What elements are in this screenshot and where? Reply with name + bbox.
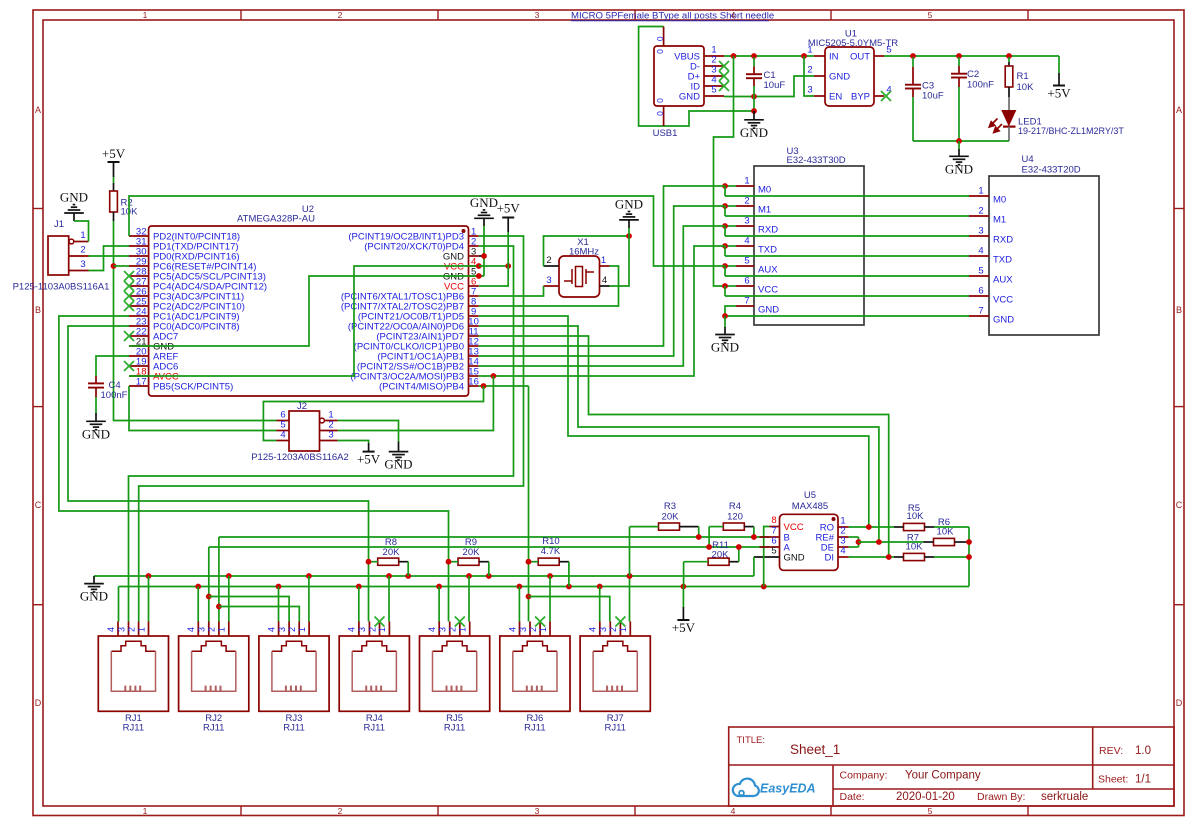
junction X1 GND bbox=[626, 233, 632, 239]
svg-text:4: 4 bbox=[266, 627, 276, 632]
svg-text:GND: GND bbox=[784, 553, 805, 564]
wire RJ2 pin3 column bbox=[208, 547, 210, 622]
wire RJ7 pin3 link bbox=[529, 597, 610, 622]
svg-text:4: 4 bbox=[106, 627, 116, 632]
EasyEDA logo bbox=[733, 779, 816, 796]
stub B line to U5 bbox=[760, 536, 770, 538]
svg-text:16MHz: 16MHz bbox=[569, 247, 599, 258]
svg-text:1: 1 bbox=[297, 627, 307, 632]
junction R9 left bbox=[446, 559, 452, 565]
connector RJ4 body bbox=[339, 636, 409, 711]
svg-text:5: 5 bbox=[978, 266, 983, 277]
wire PC0 to R8 column bbox=[68, 326, 369, 622]
svg-text:GND: GND bbox=[470, 195, 498, 210]
svg-text:7: 7 bbox=[978, 306, 983, 317]
ground GND flag above X1 bbox=[615, 196, 643, 236]
connector RJ1 body bbox=[98, 636, 168, 711]
wire AREF to C4 bbox=[96, 356, 129, 376]
wire PB3 to U3 TXD bbox=[479, 246, 725, 376]
svg-text:3: 3 bbox=[546, 275, 551, 286]
wire J1 pin3 to U2 PD1 bbox=[89, 246, 130, 271]
wire PD5 to U5 RO bbox=[479, 316, 869, 527]
junction RJ2 pin3 bus bbox=[206, 594, 212, 600]
X1 pin stubs bbox=[544, 266, 610, 286]
svg-text:3: 3 bbox=[978, 226, 983, 237]
svg-text:5: 5 bbox=[886, 45, 891, 56]
svg-text:GND: GND bbox=[80, 589, 108, 604]
svg-text:E32-433T30D: E32-433T30D bbox=[787, 155, 846, 166]
resistor R7 bbox=[894, 553, 969, 560]
svg-text:4: 4 bbox=[186, 627, 196, 632]
svg-text:1: 1 bbox=[744, 176, 749, 187]
U3 pin names bbox=[758, 185, 779, 316]
svg-text:GND: GND bbox=[384, 457, 412, 472]
wire R2 to RESET and J2 bbox=[114, 221, 277, 421]
junction ground rail bbox=[956, 138, 962, 144]
svg-text:R3: R3 bbox=[664, 501, 676, 512]
J2 right pin numbers bbox=[328, 410, 333, 441]
svg-text:GND: GND bbox=[758, 305, 779, 316]
resistor R2 bbox=[110, 183, 118, 221]
junction C1 bottom bbox=[751, 94, 757, 100]
svg-text:2: 2 bbox=[287, 627, 297, 632]
svg-text:U4: U4 bbox=[1022, 154, 1034, 165]
junction RJ2 pin2 bus bbox=[216, 604, 222, 610]
RJ6 pin stubs bbox=[520, 622, 551, 637]
svg-text:OUT: OUT bbox=[850, 52, 870, 63]
junction +5V column bbox=[505, 263, 511, 269]
wire U5 VCC to +5V rail bbox=[764, 527, 770, 587]
svg-text:REV:: REV: bbox=[1099, 745, 1123, 757]
svg-text:1/1: 1/1 bbox=[1135, 774, 1151, 786]
svg-text:GND: GND bbox=[993, 315, 1014, 326]
capacitor C3 bbox=[905, 57, 921, 141]
U2 left pin names bbox=[153, 232, 267, 393]
svg-text:4: 4 bbox=[347, 627, 357, 632]
junction U2 pin5 GND bbox=[476, 273, 482, 279]
svg-text:C2: C2 bbox=[967, 69, 979, 80]
svg-text:3: 3 bbox=[197, 627, 207, 632]
U2 pin1 marker bbox=[462, 229, 466, 233]
junction VBUS branch bbox=[731, 53, 737, 59]
ground GND below U3 bbox=[711, 316, 739, 355]
connector USB1 body bbox=[654, 46, 704, 106]
U5 left pin names bbox=[784, 522, 805, 564]
ground GND left of rail bbox=[80, 576, 108, 604]
RJ5 pin stubs bbox=[439, 622, 470, 637]
svg-text:3: 3 bbox=[518, 627, 528, 632]
junction U3 GND bbox=[722, 313, 728, 319]
wire PD2 to U3 AUX bbox=[129, 196, 725, 266]
svg-text:+5V: +5V bbox=[102, 146, 126, 161]
svg-text:E32-433T20D: E32-433T20D bbox=[1022, 165, 1081, 176]
svg-text:RJ11: RJ11 bbox=[123, 723, 144, 734]
svg-text:RJ11: RJ11 bbox=[524, 723, 545, 734]
svg-text:TITLE:: TITLE: bbox=[737, 735, 766, 746]
resistor R10 bbox=[529, 558, 569, 586]
frame column ticks bottom bbox=[241, 806, 1028, 816]
svg-text:3: 3 bbox=[438, 627, 448, 632]
svg-text:5: 5 bbox=[711, 85, 716, 96]
X1 pin numbers bbox=[546, 255, 607, 286]
svg-text:A: A bbox=[1176, 105, 1182, 115]
U5 left pin numbers bbox=[771, 515, 776, 557]
RJ4 pin numbers bbox=[347, 627, 388, 632]
no-connect X on RJ6 pin2 bbox=[535, 617, 545, 627]
RJ1 jack glyph bbox=[111, 641, 155, 651]
svg-text:4: 4 bbox=[978, 246, 983, 257]
junctions U3 pins bbox=[722, 183, 736, 289]
svg-text:3: 3 bbox=[535, 10, 540, 20]
svg-text:4: 4 bbox=[588, 627, 598, 632]
resistor R5 bbox=[894, 523, 969, 586]
svg-text:GND: GND bbox=[60, 190, 88, 205]
junction R11 to A line bbox=[736, 544, 742, 550]
svg-text:EasyEDA: EasyEDA bbox=[760, 782, 816, 796]
svg-text:M1: M1 bbox=[993, 215, 1006, 226]
U5 right pin names bbox=[816, 523, 835, 564]
power +5V flag above R2 bbox=[102, 146, 126, 183]
svg-text:4: 4 bbox=[744, 236, 749, 247]
wire J2 pin3 to +5V bbox=[338, 441, 369, 444]
J1 pin1 bubble bbox=[69, 239, 74, 244]
svg-text:3: 3 bbox=[116, 627, 126, 632]
svg-text:1.0: 1.0 bbox=[1135, 745, 1151, 757]
frame row ticks right bbox=[1174, 209, 1184, 605]
junction C2 top bbox=[956, 53, 962, 59]
wire MOSI to J2 pin2 bbox=[338, 376, 494, 431]
J2 right pin stubs bbox=[320, 421, 338, 441]
module U4 body bbox=[989, 176, 1099, 335]
svg-text:+5V: +5V bbox=[1047, 86, 1071, 101]
svg-text:1: 1 bbox=[807, 45, 812, 56]
U2 left pin stubs bbox=[129, 236, 149, 386]
RJ7 jack glyph bbox=[593, 641, 637, 651]
power +5V flag top right bbox=[1047, 56, 1071, 101]
U4 pin stubs bbox=[969, 196, 989, 316]
RJ2 jack glyph bbox=[192, 641, 236, 651]
svg-text:2: 2 bbox=[448, 627, 458, 632]
capacitor C2 bbox=[951, 57, 967, 141]
connector RJ5 body bbox=[420, 636, 490, 711]
svg-text:1: 1 bbox=[978, 186, 983, 197]
wire U3 GND elbow bbox=[725, 306, 736, 316]
junction RE DE mid bbox=[856, 539, 862, 545]
RJ2 pin numbers bbox=[186, 627, 227, 632]
ground GND below C2 bbox=[945, 141, 973, 176]
svg-text:2020-01-20: 2020-01-20 bbox=[896, 791, 955, 803]
svg-text:2: 2 bbox=[608, 627, 618, 632]
svg-text:2: 2 bbox=[546, 255, 551, 266]
junction +5V flag column bbox=[681, 584, 687, 590]
svg-text:M1: M1 bbox=[758, 205, 771, 216]
svg-text:1: 1 bbox=[601, 255, 606, 266]
svg-text:2: 2 bbox=[807, 65, 812, 76]
svg-text:(PCINT4/MISO)PB4: (PCINT4/MISO)PB4 bbox=[379, 382, 464, 393]
svg-text:3: 3 bbox=[328, 430, 333, 441]
svg-text:20K: 20K bbox=[383, 547, 401, 558]
frame column numbers bottom bbox=[143, 806, 933, 816]
U2 right pin names bbox=[341, 232, 464, 393]
wire +5V column to VCC pin6 bbox=[479, 266, 508, 286]
crystal X1 body bbox=[559, 256, 600, 297]
junction U2 pin3 GND bbox=[481, 253, 487, 259]
USB1 pin numbers bbox=[711, 45, 716, 96]
svg-text:GND: GND bbox=[945, 161, 973, 176]
power +5V flag above U2 bbox=[497, 201, 521, 267]
junction R8 lead on ground rail bbox=[405, 573, 411, 579]
svg-text:Drawn By:: Drawn By: bbox=[977, 791, 1025, 803]
wire U5 RE DE tie bbox=[849, 537, 859, 547]
svg-text:P125-1203A0BS116A2: P125-1203A0BS116A2 bbox=[251, 452, 349, 463]
junction C3 top bbox=[910, 53, 916, 59]
resistor R4 bbox=[709, 523, 754, 547]
svg-text:PB5(SCK/PCINT5): PB5(SCK/PCINT5) bbox=[153, 382, 233, 393]
junction DI feeder bbox=[886, 554, 892, 560]
wire MISO to J2 pin4 bbox=[263, 386, 483, 441]
svg-text:2: 2 bbox=[126, 627, 136, 632]
svg-text:TXD: TXD bbox=[993, 255, 1012, 266]
RJ4 pin stubs bbox=[359, 622, 390, 637]
frame column ticks top bbox=[241, 10, 1028, 20]
svg-text:EN: EN bbox=[829, 92, 842, 103]
wire USB GND to U1 GND bbox=[724, 76, 814, 97]
svg-text:U5: U5 bbox=[804, 490, 816, 501]
junction MOSI branch bbox=[491, 373, 497, 379]
svg-text:MAX485: MAX485 bbox=[792, 501, 828, 512]
frame row letters right bbox=[1176, 105, 1183, 708]
svg-text:20K: 20K bbox=[662, 512, 680, 523]
svg-text:0: 0 bbox=[655, 111, 665, 116]
svg-text:2: 2 bbox=[978, 206, 983, 217]
svg-text:A: A bbox=[35, 105, 41, 115]
U2 right pin stubs bbox=[469, 236, 479, 386]
svg-text:1: 1 bbox=[80, 230, 85, 241]
svg-text:BYP: BYP bbox=[851, 92, 870, 103]
svg-text:10K: 10K bbox=[1017, 82, 1035, 93]
svg-text:+5V: +5V bbox=[357, 452, 381, 467]
svg-text:1: 1 bbox=[136, 627, 146, 632]
junction GND symbol bbox=[751, 108, 757, 114]
connector J2 body bbox=[289, 411, 320, 451]
wire RS485 A line bbox=[209, 546, 770, 548]
junction RESET bbox=[111, 263, 117, 269]
wires U3 to U4 bus bbox=[725, 186, 969, 316]
svg-text:R1: R1 bbox=[1017, 71, 1029, 82]
junction R3 lead on ground rail bbox=[627, 573, 633, 579]
junction U2 pin4 VCC bbox=[476, 263, 482, 269]
U5 right pin stubs bbox=[838, 527, 849, 557]
svg-text:M0: M0 bbox=[993, 195, 1006, 206]
wire RJ1 pin4 drop bbox=[118, 587, 120, 622]
resistor R8 bbox=[369, 558, 409, 576]
svg-text:10uF: 10uF bbox=[764, 80, 786, 91]
ground GND flag above U2 bbox=[470, 195, 498, 276]
no-connect X on U1 BYP bbox=[881, 91, 891, 101]
svg-text:3: 3 bbox=[277, 627, 287, 632]
svg-text:RJ11: RJ11 bbox=[364, 723, 385, 734]
svg-text:5: 5 bbox=[744, 256, 749, 267]
ground GND below C4 bbox=[82, 413, 110, 441]
svg-text:2: 2 bbox=[80, 245, 85, 256]
wire X1 pin2 to GND rail bbox=[544, 236, 630, 266]
wire VBUS to U1 IN bbox=[724, 55, 814, 57]
svg-text:GND: GND bbox=[82, 426, 110, 441]
svg-text:0: 0 bbox=[655, 36, 665, 41]
svg-text:D: D bbox=[35, 698, 42, 708]
svg-text:5: 5 bbox=[928, 10, 933, 20]
connector RJ7 body bbox=[580, 636, 650, 711]
USB1 pin names bbox=[674, 51, 700, 102]
junction C1 top bbox=[751, 53, 757, 59]
resistor R9 bbox=[449, 558, 489, 576]
J2 pin1 bubble bbox=[320, 418, 325, 423]
wire U2 pin3 GND bbox=[479, 255, 484, 257]
no-connect X on USB1 D- bbox=[719, 61, 729, 71]
svg-text:4: 4 bbox=[731, 806, 736, 816]
svg-text:2: 2 bbox=[338, 10, 343, 20]
svg-text:2: 2 bbox=[207, 627, 217, 632]
wire main ground rail bbox=[94, 575, 754, 577]
RJ4 jack glyph bbox=[352, 641, 396, 651]
frame row ticks left bbox=[33, 209, 43, 605]
svg-text:Date:: Date: bbox=[840, 791, 865, 803]
svg-text:2: 2 bbox=[528, 627, 538, 632]
wire PB0 to U3 M0 bbox=[479, 186, 725, 346]
RJ1 pin numbers bbox=[106, 627, 147, 632]
U2 right pin numbers bbox=[468, 227, 479, 388]
U5 left pin stubs bbox=[754, 527, 780, 558]
ground GND flag above J1 bbox=[60, 190, 89, 242]
U5 pin1 marker bbox=[832, 517, 836, 521]
svg-text:Company:: Company: bbox=[840, 770, 888, 782]
RJ3 jack glyph bbox=[272, 641, 316, 651]
RJ3 pin numbers bbox=[266, 627, 307, 632]
svg-text:20K: 20K bbox=[712, 550, 730, 561]
svg-text:1: 1 bbox=[143, 806, 148, 816]
svg-text:4: 4 bbox=[280, 430, 285, 441]
svg-text:8: 8 bbox=[771, 515, 776, 526]
U5 right pin numbers bbox=[840, 516, 845, 557]
connector J1 body bbox=[48, 236, 69, 275]
resistor R3 bbox=[630, 523, 699, 576]
svg-text:+5V: +5V bbox=[672, 620, 696, 635]
junctions +5V rail RJ pin4 columns bbox=[195, 584, 602, 622]
USB1 shield pin bottom bbox=[663, 106, 665, 126]
no-connect X on USB1 D+ bbox=[719, 71, 729, 81]
wire U5 RO row bbox=[849, 526, 894, 528]
RJ3 pin stubs bbox=[279, 622, 310, 637]
svg-text:19-217/BHC-ZL1M2RY/3T: 19-217/BHC-ZL1M2RY/3T bbox=[1018, 126, 1124, 136]
RJ6 pin numbers bbox=[507, 627, 548, 632]
svg-text:GND: GND bbox=[829, 72, 850, 83]
wire RS485 B line bbox=[219, 536, 770, 538]
wire J2 pin1 to ground bbox=[338, 421, 399, 442]
junction R6 right bbox=[966, 539, 972, 545]
svg-text:6: 6 bbox=[744, 276, 749, 287]
connector RJ3 body bbox=[259, 636, 329, 711]
svg-text:VCC: VCC bbox=[758, 285, 778, 296]
svg-text:AUX: AUX bbox=[993, 275, 1013, 286]
svg-text:Sheet_1: Sheet_1 bbox=[790, 742, 840, 757]
svg-text:10uF: 10uF bbox=[922, 91, 944, 102]
no-connect X on RJ5 pin2 bbox=[455, 617, 465, 627]
svg-text:C: C bbox=[35, 500, 42, 510]
wire RJ3 pin3 link bbox=[209, 597, 289, 622]
svg-text:GND: GND bbox=[615, 196, 643, 211]
svg-text:100nF: 100nF bbox=[967, 80, 994, 91]
resistor R1 bbox=[1005, 57, 1013, 97]
RJ5 pin numbers bbox=[427, 627, 468, 632]
U4 pin names bbox=[993, 195, 1014, 326]
transceiver U5 body bbox=[780, 514, 839, 570]
junction MISO branch bbox=[481, 383, 487, 389]
capacitor C1 bbox=[746, 57, 762, 97]
svg-text:Your Company: Your Company bbox=[905, 770, 981, 782]
svg-text:R4: R4 bbox=[729, 501, 741, 512]
junction R9 lead on ground rail bbox=[486, 573, 492, 579]
wire EN tie to IN bbox=[804, 56, 814, 96]
svg-text:3: 3 bbox=[357, 627, 367, 632]
connector RJ2 body bbox=[179, 636, 249, 711]
power +5V flag below rail bbox=[672, 587, 696, 636]
wire X1 pin4 to GND rail bbox=[610, 236, 630, 286]
module U3 body bbox=[754, 166, 864, 325]
wire U5 DI row bbox=[849, 556, 894, 558]
svg-text:4: 4 bbox=[427, 627, 437, 632]
svg-text:GND: GND bbox=[740, 125, 768, 140]
svg-text:RJ11: RJ11 bbox=[283, 723, 304, 734]
no-connect X on USB1 ID bbox=[719, 81, 729, 91]
no-connect X marks U2 left bbox=[124, 271, 134, 371]
svg-text:5: 5 bbox=[771, 546, 776, 557]
wire RE DE row bbox=[859, 541, 924, 543]
svg-text:1: 1 bbox=[377, 627, 387, 632]
svg-text:1: 1 bbox=[217, 627, 227, 632]
svg-text:100nF: 100nF bbox=[101, 390, 128, 401]
wire regulator ground rail bbox=[913, 140, 1009, 142]
capacitor C4 bbox=[88, 376, 104, 413]
svg-text:17: 17 bbox=[136, 377, 147, 388]
RJ7 pin numbers bbox=[588, 627, 629, 632]
junction MISO R10 column bbox=[526, 559, 531, 564]
RJ6 jack glyph bbox=[513, 641, 557, 651]
stub A line to U5 bbox=[760, 546, 770, 548]
svg-text:1: 1 bbox=[458, 627, 468, 632]
svg-text:120: 120 bbox=[727, 512, 743, 523]
wire X1 pin3 to U2 PB6 bbox=[479, 286, 544, 296]
junction U5 VCC column bbox=[761, 584, 767, 590]
wire PB4 MISO row bbox=[479, 385, 529, 387]
RJ2 pin stubs bbox=[198, 622, 229, 637]
junction R4 to A line bbox=[706, 544, 712, 550]
wire U2 GND pin21 to pin5 bbox=[129, 276, 484, 346]
svg-text:6: 6 bbox=[978, 286, 983, 297]
svg-text:D: D bbox=[1176, 698, 1183, 708]
svg-text:TXD: TXD bbox=[758, 245, 777, 256]
svg-text:3: 3 bbox=[807, 85, 812, 96]
wire U1 OUT 5V rail bbox=[884, 55, 1059, 57]
junction RO feeder bbox=[866, 524, 872, 530]
svg-text:+5V: +5V bbox=[497, 201, 521, 216]
svg-text:AUX: AUX bbox=[758, 265, 778, 276]
svg-text:J2: J2 bbox=[297, 401, 307, 412]
RJ7 pin stubs bbox=[600, 622, 631, 637]
J2 left pin numbers bbox=[280, 410, 285, 441]
U1 pin numbers bbox=[807, 45, 891, 96]
svg-text:MICRO 5PFemale BType all posts: MICRO 5PFemale BType all posts Short nee… bbox=[571, 10, 774, 21]
svg-text:B: B bbox=[35, 305, 41, 315]
